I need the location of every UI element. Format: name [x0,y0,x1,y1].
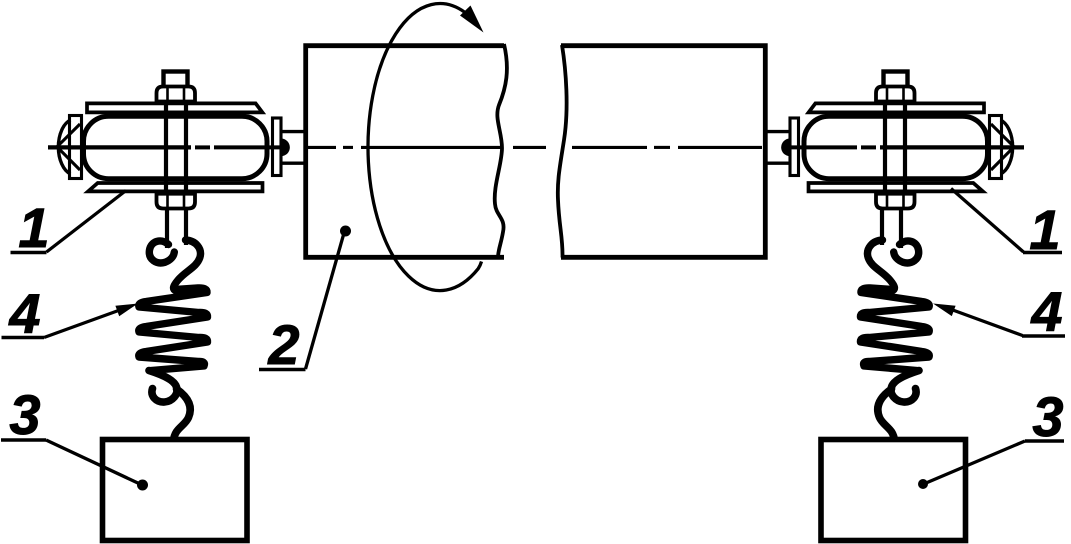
bottom clamp plate [88,183,262,191]
end cap dome [58,120,70,174]
clamp bolt shank lines [164,101,168,194]
bottom clamp plate [809,183,983,191]
rod end eye hook [894,241,919,263]
spring top S-hook [174,240,201,291]
svg-text:2: 2 [267,313,299,376]
spring bottom eye [149,371,177,403]
top clamp plate [87,103,262,112]
shaft upper line [764,130,789,133]
arrow leader for label 4 right [950,309,1023,336]
clamp bolt shank lines [903,101,907,194]
shaft nose half-dot [781,139,790,157]
break line (wavy edge) of left drum part [495,44,507,258]
rotation arrowhead [460,6,484,33]
centerline long dash in left drum [361,146,503,149]
centerline dash through right bearing [880,145,1024,149]
leader line for label 1 left [47,191,127,253]
drum section 2 left part [306,46,504,258]
coil spring 4 [139,288,208,371]
shaft nose half-dot [281,139,290,157]
hanger rod lines [165,209,169,249]
arrow leader for label 4 left [44,309,124,338]
centerline dash between drum halves [513,146,546,149]
weight block 3 [103,440,248,541]
weight top S-hook [174,389,191,441]
end cap collar [990,116,1002,179]
svg-text:3: 3 [1032,385,1063,448]
svg-text:4: 4 [8,282,40,345]
centerline dash in left drum [307,146,336,149]
bolt square head [884,72,908,89]
centerline dot [654,146,670,149]
centerline dash right shaft [791,145,857,149]
centerline dot [861,145,876,149]
inner bearing plate [790,118,799,176]
centerline long dash in right drum [572,146,647,149]
coil spring 4 [860,288,929,371]
weight block 3 [821,440,966,541]
leader line for label 1 right [951,189,1024,253]
end cap dome [1001,120,1013,174]
bearing housing capsule [84,116,268,178]
shaft lower line [282,161,307,164]
leader line for label 3 right [926,441,1025,483]
bearing housing capsule [804,116,988,178]
top clamp plate [809,103,984,112]
break line (wavy edge) of right drum part [558,45,567,258]
bolt upper nut [876,87,915,102]
end cap cone point [57,124,80,170]
centerline dash through left bearing [48,145,191,149]
rod end eye hook [149,241,174,263]
end cap collar [70,116,82,179]
centerline dash in right drum [678,146,762,149]
leader line for label 3 left [46,440,140,484]
svg-text:4: 4 [1030,280,1062,343]
svg-text:1: 1 [18,196,49,259]
centerline dash to left shaft [214,145,280,149]
bolt square head [164,72,188,89]
bolt lower nut [157,194,196,209]
leader line for label 2 [306,233,345,369]
svg-text:3: 3 [9,383,40,446]
right bearing unit 1 (mirrored) [764,72,1014,541]
drum section 2 right part [561,46,765,258]
bolt lower nut [876,194,915,209]
end cap cone point [991,124,1014,170]
spring top S-hook [868,240,895,291]
hanger rod lines [899,209,903,249]
bolt upper nut [157,87,196,102]
weight top S-hook [878,389,895,441]
rotation direction arc [368,4,482,291]
shaft upper line [282,130,307,133]
left bearing unit 1 [57,72,307,541]
centerline dot [195,145,210,149]
inner bearing plate [273,118,282,176]
centerline dot [343,146,353,149]
shaft lower line [764,161,789,164]
spring bottom eye [891,371,919,403]
